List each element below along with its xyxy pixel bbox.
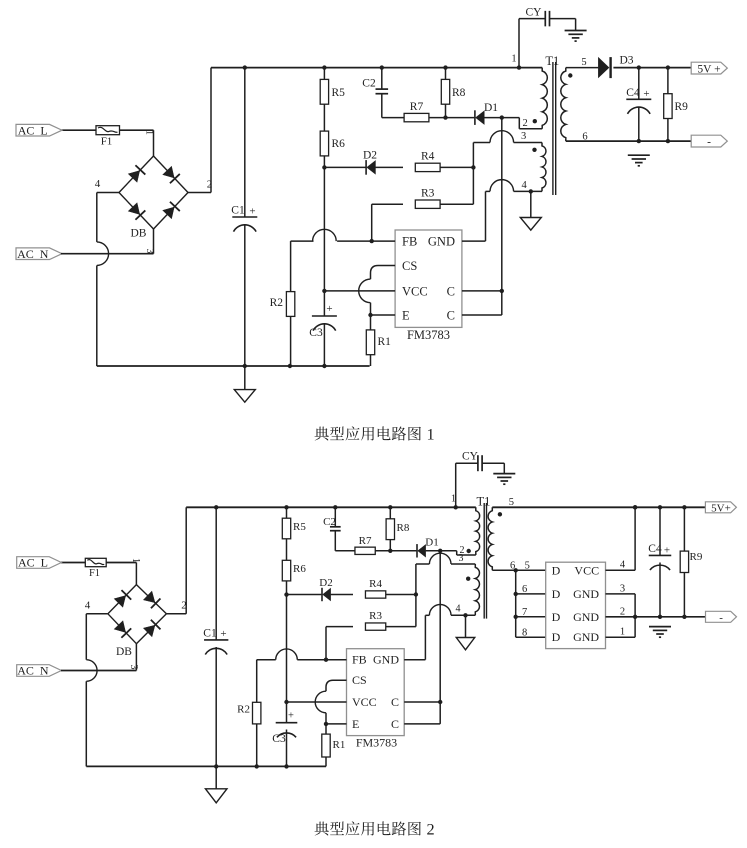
- svg-text:5: 5: [525, 561, 530, 572]
- svg-text:R7: R7: [359, 535, 372, 547]
- svg-text:1: 1: [427, 424, 435, 443]
- svg-text:C2: C2: [323, 516, 336, 528]
- svg-text:C1: C1: [203, 628, 217, 640]
- svg-text:R4: R4: [369, 578, 382, 590]
- svg-text:3: 3: [620, 583, 625, 594]
- svg-text:5: 5: [581, 57, 586, 68]
- svg-text:4: 4: [456, 604, 461, 615]
- svg-text:1: 1: [511, 54, 516, 65]
- svg-text:C: C: [391, 695, 399, 709]
- svg-text:GND: GND: [573, 630, 599, 644]
- svg-text:+: +: [288, 711, 294, 722]
- svg-text:+: +: [220, 628, 226, 640]
- svg-text:5: 5: [509, 497, 514, 508]
- svg-text:-: -: [707, 136, 711, 148]
- svg-text:D: D: [552, 610, 561, 624]
- svg-text:GND: GND: [428, 235, 455, 249]
- svg-text:D1: D1: [425, 537, 438, 549]
- svg-text:R1: R1: [378, 336, 392, 348]
- svg-text:5V +: 5V +: [697, 63, 720, 75]
- svg-text:R5: R5: [332, 87, 346, 99]
- svg-text:F1: F1: [101, 136, 113, 148]
- svg-text:C4: C4: [648, 543, 662, 555]
- svg-text:CS: CS: [352, 673, 367, 687]
- svg-text:D: D: [552, 630, 561, 644]
- svg-text:C3: C3: [272, 733, 286, 745]
- svg-text:E: E: [402, 309, 410, 323]
- svg-text:6: 6: [510, 561, 515, 572]
- svg-text:D3: D3: [620, 55, 634, 67]
- svg-text:2: 2: [620, 606, 625, 617]
- svg-text:GND: GND: [573, 610, 599, 624]
- svg-text:VCC: VCC: [574, 563, 599, 577]
- svg-text:3: 3: [128, 665, 139, 670]
- svg-text:2: 2: [181, 600, 187, 612]
- svg-text:VCC: VCC: [352, 695, 377, 709]
- svg-text:-: -: [719, 612, 723, 624]
- svg-text:3: 3: [144, 249, 155, 254]
- svg-text:C3: C3: [309, 327, 323, 339]
- svg-text:R6: R6: [332, 138, 346, 150]
- svg-text:AC L: AC L: [18, 123, 48, 137]
- svg-text:R2: R2: [237, 704, 250, 716]
- svg-text:1: 1: [620, 627, 625, 638]
- svg-text:R5: R5: [293, 521, 306, 533]
- svg-text:CS: CS: [402, 259, 417, 273]
- svg-text:D: D: [552, 587, 561, 601]
- svg-text:4: 4: [620, 560, 626, 571]
- svg-text:1: 1: [144, 130, 155, 135]
- svg-text:2: 2: [207, 179, 213, 191]
- svg-text:C4: C4: [626, 87, 640, 99]
- svg-text:+: +: [664, 545, 670, 557]
- svg-text:GND: GND: [373, 653, 399, 667]
- svg-text:AC L: AC L: [18, 556, 48, 570]
- svg-text:8: 8: [522, 627, 527, 638]
- svg-text:R3: R3: [421, 188, 435, 200]
- svg-text:+: +: [326, 303, 332, 315]
- svg-text:2: 2: [427, 819, 435, 838]
- svg-text:FM3783: FM3783: [356, 736, 397, 750]
- svg-text:E: E: [352, 717, 359, 731]
- svg-text:R7: R7: [410, 101, 424, 113]
- svg-text:R1: R1: [333, 739, 346, 751]
- svg-text:3: 3: [521, 131, 526, 142]
- svg-text:R6: R6: [293, 563, 306, 575]
- svg-text:C2: C2: [362, 78, 376, 90]
- svg-text:D2: D2: [319, 577, 332, 589]
- svg-text:FB: FB: [352, 653, 367, 667]
- svg-text:F1: F1: [89, 568, 100, 579]
- svg-text:VCC: VCC: [402, 284, 428, 298]
- svg-text:+: +: [643, 88, 649, 100]
- svg-text:R8: R8: [452, 87, 466, 99]
- svg-text:DB: DB: [116, 646, 132, 658]
- svg-text:4: 4: [522, 180, 528, 191]
- svg-text:D2: D2: [363, 150, 377, 162]
- svg-text:R8: R8: [397, 522, 410, 534]
- svg-text:R9: R9: [675, 101, 689, 113]
- svg-text:C1: C1: [231, 205, 245, 217]
- svg-text:4: 4: [95, 178, 101, 190]
- svg-text:C: C: [447, 309, 455, 323]
- svg-text:FB: FB: [402, 235, 417, 249]
- svg-text:R9: R9: [690, 551, 703, 563]
- svg-text:3: 3: [459, 553, 464, 564]
- svg-text:R3: R3: [369, 610, 382, 622]
- svg-text:R2: R2: [270, 297, 284, 309]
- svg-text:D1: D1: [484, 102, 498, 114]
- svg-text:+: +: [249, 206, 255, 218]
- svg-text:DB: DB: [131, 228, 147, 240]
- svg-text:T1: T1: [545, 54, 559, 68]
- svg-text:4: 4: [85, 600, 91, 612]
- svg-text:7: 7: [522, 607, 527, 618]
- svg-text:CY: CY: [526, 7, 543, 19]
- svg-text:AC N: AC N: [17, 664, 49, 678]
- svg-text:6: 6: [522, 584, 527, 595]
- svg-text:C: C: [391, 717, 399, 731]
- svg-text:D: D: [552, 563, 561, 577]
- svg-text:R4: R4: [421, 151, 435, 163]
- svg-text:6: 6: [582, 132, 587, 143]
- svg-text:CY: CY: [462, 451, 479, 463]
- svg-text:C: C: [447, 284, 455, 298]
- svg-text:GND: GND: [573, 587, 599, 601]
- svg-text:T1: T1: [476, 495, 490, 509]
- svg-text:2: 2: [523, 118, 528, 129]
- svg-text:FM3783: FM3783: [407, 328, 450, 342]
- svg-text:5V+: 5V+: [711, 503, 731, 515]
- svg-text:AC N: AC N: [17, 247, 49, 261]
- svg-text:1: 1: [130, 558, 141, 563]
